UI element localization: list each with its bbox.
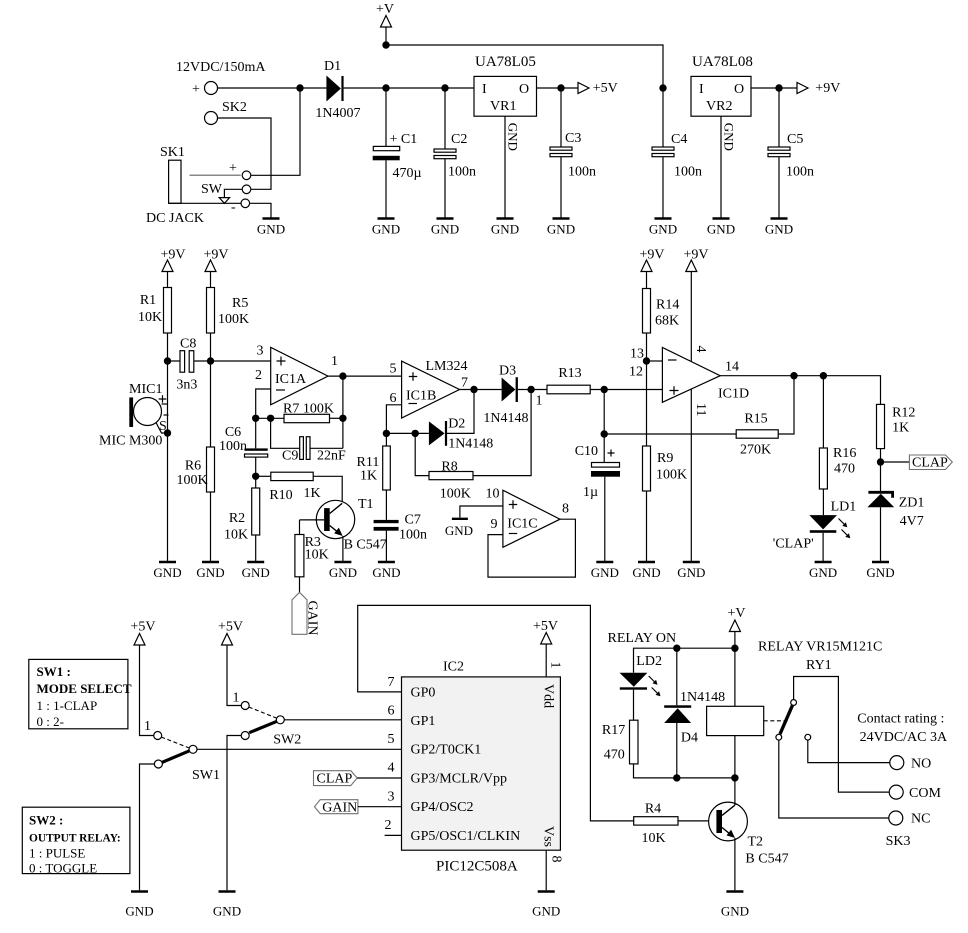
svg-text:RELAY VR15M121C: RELAY VR15M121C xyxy=(758,640,882,655)
svg-text:GND: GND xyxy=(445,523,473,538)
wire output to D2 cathode xyxy=(447,390,474,434)
wire pin6 node to D2 anode xyxy=(386,432,429,434)
VR2 ground pin xyxy=(721,116,737,218)
svg-text:100K: 100K xyxy=(656,468,687,483)
DC jack minus pin and sleeve wire xyxy=(169,199,271,219)
svg-text:VR1: VR1 xyxy=(490,99,516,114)
connector SK2 plus pin xyxy=(192,82,300,98)
svg-text:SW: SW xyxy=(201,182,223,197)
svg-text:R15: R15 xyxy=(744,412,767,427)
svg-text:7: 7 xyxy=(461,376,468,391)
svg-text:C2: C2 xyxy=(451,132,467,147)
svg-text:100n: 100n xyxy=(399,528,427,543)
svg-text:1N4148: 1N4148 xyxy=(680,690,725,705)
resistor R9 100K xyxy=(643,446,688,562)
connector SK2 minus pin xyxy=(205,112,272,190)
svg-text:LM324: LM324 xyxy=(426,359,468,374)
node +5V at SW2 xyxy=(218,620,243,706)
svg-text:COM: COM xyxy=(909,786,941,801)
svg-text:GP0: GP0 xyxy=(411,685,436,700)
capacitor C9 22nF xyxy=(271,418,346,463)
ground at C5 xyxy=(765,219,793,237)
svg-text:8: 8 xyxy=(562,502,569,517)
svg-text:3: 3 xyxy=(388,789,395,804)
resistor R7 100K xyxy=(283,402,343,423)
LED LD2 xyxy=(620,654,662,720)
svg-text:100n: 100n xyxy=(448,165,476,180)
resistor R12 1K xyxy=(877,404,916,491)
switch SW2 contact 1 xyxy=(233,691,250,710)
svg-text:IC1D: IC1D xyxy=(718,387,749,402)
capacitor C8 3n3 xyxy=(168,337,211,393)
resistor R6 100K xyxy=(176,447,214,492)
svg-text:1K: 1K xyxy=(892,421,909,436)
IC2 PIC12C508A body xyxy=(402,660,561,875)
svg-text:SK3: SK3 xyxy=(886,834,911,849)
IC2 pin 3 GP4 with GAIN tag xyxy=(315,789,402,815)
ground at VR1 xyxy=(491,219,519,237)
svg-text:GND: GND xyxy=(722,123,737,151)
svg-text:100n: 100n xyxy=(674,165,702,180)
relay lever xyxy=(780,706,792,735)
svg-text:100K: 100K xyxy=(176,473,207,488)
junction feedback right xyxy=(339,415,346,422)
resistor R15 270K feedback xyxy=(604,376,794,458)
svg-text:R2: R2 xyxy=(229,511,245,526)
terminal COM xyxy=(889,785,941,801)
IC1A output pin1 xyxy=(328,354,402,376)
svg-text:470: 470 xyxy=(604,748,625,763)
svg-text:1 : 1-CLAP: 1 : 1-CLAP xyxy=(37,698,98,713)
switch SW2 common pole xyxy=(273,716,401,748)
tag GAIN vertical xyxy=(292,592,320,635)
resistor R1 10K xyxy=(138,288,172,334)
svg-text:+9V: +9V xyxy=(815,81,840,96)
svg-text:1N4148: 1N4148 xyxy=(448,437,493,452)
ground at C2 xyxy=(431,219,459,237)
svg-text:D1: D1 xyxy=(324,59,341,74)
svg-text:R17: R17 xyxy=(602,723,625,738)
ground at SW2 xyxy=(213,892,241,919)
op-amp IC1A xyxy=(255,344,328,405)
resistor R5 100K xyxy=(207,288,250,334)
svg-text:10: 10 xyxy=(486,487,500,502)
junction IC1A output xyxy=(339,372,346,379)
resistor R4 10K xyxy=(634,802,717,847)
wire R5 to R6 xyxy=(210,333,212,447)
svg-text:100n: 100n xyxy=(786,165,814,180)
ground at SW1 xyxy=(125,892,153,919)
relay NC throw contact xyxy=(776,734,889,818)
switch SW1 contact 0 xyxy=(140,760,163,890)
wire VR1 output xyxy=(537,87,579,89)
svg-text:+9V: +9V xyxy=(639,248,664,263)
ground at C7 xyxy=(372,562,400,580)
ground at DC jack xyxy=(257,219,285,237)
svg-text:NC: NC xyxy=(911,812,930,827)
svg-text:1N4007: 1N4007 xyxy=(315,106,360,121)
svg-text:SW2: SW2 xyxy=(273,733,301,748)
junction C1 node xyxy=(382,84,389,91)
svg-text:100K: 100K xyxy=(218,312,249,327)
svg-text:D3: D3 xyxy=(499,364,516,379)
IC1C feedback loop pin9 to pin8 xyxy=(488,519,575,577)
junction R16 top xyxy=(820,372,827,379)
IC2 pin 4 GP3 with CLAP tag xyxy=(314,761,402,787)
svg-text:VR2: VR2 xyxy=(706,99,732,114)
junction C9 branch xyxy=(267,415,274,422)
junction pin6 node xyxy=(383,430,390,437)
VR1 ground pin xyxy=(505,116,521,218)
junction R8 branch xyxy=(412,430,419,437)
capacitor C6 100n xyxy=(219,418,268,488)
svg-text:R10: R10 xyxy=(269,488,292,503)
svg-text:SK2: SK2 xyxy=(222,100,247,115)
svg-text:GAIN: GAIN xyxy=(322,801,357,816)
svg-text:R1: R1 xyxy=(140,293,156,308)
resistor R10 1K xyxy=(256,472,343,503)
svg-text:C9: C9 xyxy=(282,449,298,464)
IC2 pin 1 Vdd +5V xyxy=(533,619,563,677)
zener ZD1 4V7 xyxy=(867,492,924,562)
svg-text:NO: NO xyxy=(911,757,931,772)
svg-text:R4: R4 xyxy=(645,802,661,817)
wire junction to DC jack plus contact xyxy=(251,88,300,175)
resistor R2 10K xyxy=(224,488,260,562)
junction bottom rail at coil xyxy=(731,774,738,781)
tag CLAP output xyxy=(881,455,953,471)
label contact rating xyxy=(857,712,948,746)
svg-text:GAIN: GAIN xyxy=(305,601,320,636)
svg-text:C5: C5 xyxy=(787,132,803,147)
svg-text:'CLAP': 'CLAP' xyxy=(773,537,814,552)
relay NO throw contact xyxy=(805,734,890,762)
svg-text:GP1: GP1 xyxy=(411,714,436,729)
regulator VR1 UA78L05 xyxy=(474,54,537,116)
transistor T1 BC547 xyxy=(300,497,387,562)
svg-text:2: 2 xyxy=(255,368,262,383)
svg-text:GP3/MCLR/Vpp: GP3/MCLR/Vpp xyxy=(411,771,507,786)
svg-text:+9V: +9V xyxy=(203,248,228,263)
terminal NO xyxy=(890,756,931,772)
svg-text:9: 9 xyxy=(491,517,498,532)
svg-text:SW2 :: SW2 : xyxy=(29,813,63,828)
svg-text:IC1C: IC1C xyxy=(507,517,537,532)
svg-text:11: 11 xyxy=(693,403,708,416)
svg-text:R14: R14 xyxy=(656,298,679,313)
svg-text:+V: +V xyxy=(376,2,394,17)
svg-text:C7: C7 xyxy=(405,513,421,528)
svg-text:GP2/T0CK1: GP2/T0CK1 xyxy=(411,743,482,758)
junction IC1B output xyxy=(470,386,477,393)
svg-text:SW1 :: SW1 : xyxy=(37,664,71,679)
junction C2 node xyxy=(441,84,448,91)
SW2 dashed throw xyxy=(249,707,277,718)
resistor R16 470 xyxy=(819,376,856,515)
svg-text:100n: 100n xyxy=(568,165,596,180)
junction R13-C10 node xyxy=(601,386,608,393)
switch SW2 contact 0 xyxy=(227,732,249,891)
svg-text:7: 7 xyxy=(388,675,395,690)
ground at C3 xyxy=(547,219,575,237)
junction C4 node xyxy=(659,84,666,91)
node +V at relay xyxy=(727,606,745,706)
microphone MIC1 MIC M300 xyxy=(99,382,169,449)
diode D3 1N4148 xyxy=(483,364,547,427)
junction R5-C8 xyxy=(207,357,214,364)
capacitor C1 470u electrolytic xyxy=(373,88,422,219)
svg-text:24VDC/AC 3A: 24VDC/AC 3A xyxy=(860,730,948,745)
svg-text:10K: 10K xyxy=(138,310,162,325)
svg-text:+: + xyxy=(192,82,200,97)
junction pin2 node xyxy=(252,415,259,422)
svg-text:OUTPUT RELAY:: OUTPUT RELAY: xyxy=(29,833,121,845)
transistor T2 BC547 xyxy=(709,778,789,890)
svg-text:1µ: 1µ xyxy=(583,485,598,500)
svg-text:DC JACK: DC JACK xyxy=(146,211,204,226)
svg-text:4: 4 xyxy=(388,761,395,776)
switch SW1 common pole xyxy=(189,745,402,783)
svg-text:6: 6 xyxy=(390,391,397,406)
svg-text:SK1: SK1 xyxy=(160,145,185,160)
node +5V at SW1 xyxy=(130,620,155,736)
svg-text:22nF: 22nF xyxy=(317,449,346,464)
node +9V rail arrow xyxy=(797,81,840,96)
wire pin13 xyxy=(630,347,662,362)
junction pin13 node xyxy=(643,357,650,364)
svg-text:RELAY ON: RELAY ON xyxy=(608,631,677,646)
svg-text:IC1B: IC1B xyxy=(406,389,436,404)
resistor R8 100K xyxy=(415,390,531,502)
svg-text:Vss: Vss xyxy=(541,826,556,847)
ground at VR2 xyxy=(707,219,735,237)
svg-text:470µ: 470µ xyxy=(393,166,422,181)
relay common bracket to COM xyxy=(794,677,890,793)
svg-text:D4: D4 xyxy=(681,731,698,746)
svg-text:3n3: 3n3 xyxy=(176,378,197,393)
svg-text:68K: 68K xyxy=(655,314,679,329)
wire VR2 output xyxy=(751,87,797,89)
IC1D pin11 wire to ground xyxy=(690,390,692,563)
junction top rail at coil xyxy=(731,645,738,652)
junction C6-R10-R2 xyxy=(252,473,259,480)
svg-text:100n: 100n xyxy=(219,439,247,454)
svg-text:LD1: LD1 xyxy=(831,500,857,515)
IC1B output wire xyxy=(460,389,502,391)
ground at C4 xyxy=(649,219,677,237)
svg-text:10K: 10K xyxy=(224,528,248,543)
svg-text:MIC M300: MIC M300 xyxy=(99,434,162,449)
svg-text:C6: C6 xyxy=(225,425,241,440)
SW2 lever xyxy=(249,721,277,732)
wire C8 node to IC1A pin3 xyxy=(211,360,271,362)
svg-text:-: - xyxy=(231,200,236,215)
node +5V rail arrow xyxy=(578,81,618,96)
junction C10-R15 xyxy=(601,430,608,437)
diode D4 1N4148 flyback xyxy=(664,648,725,778)
ground at R6 xyxy=(196,562,224,580)
dashed link coil to lever xyxy=(764,720,788,722)
svg-text:GP4/OSC2: GP4/OSC2 xyxy=(411,800,474,815)
junction CLAP node xyxy=(877,458,884,465)
junction mic shield node xyxy=(164,429,171,436)
svg-text:C10: C10 xyxy=(575,444,598,459)
DC jack switch contact SW xyxy=(201,182,251,203)
ground at R9 xyxy=(632,562,660,580)
svg-text:1: 1 xyxy=(144,719,151,734)
node +9V at IC1D pin4 xyxy=(683,248,708,362)
svg-text:GND: GND xyxy=(506,123,521,151)
ground at IC2 xyxy=(532,892,560,919)
svg-text:2: 2 xyxy=(385,818,392,833)
svg-text:B C547: B C547 xyxy=(344,538,387,553)
svg-text:T1: T1 xyxy=(358,497,374,512)
capacitor C2 100n xyxy=(434,88,476,219)
svg-text:10K: 10K xyxy=(305,548,329,563)
note box SW2 OUTPUT RELAY xyxy=(22,807,130,875)
svg-text:+ C1: + C1 xyxy=(390,132,418,147)
svg-text:RY1: RY1 xyxy=(806,658,832,673)
node +V xyxy=(376,2,394,45)
IC2 pin 2 stub xyxy=(385,818,402,835)
junction top rail at D4 xyxy=(673,645,680,652)
svg-text:13: 13 xyxy=(630,347,644,362)
svg-text:+5V: +5V xyxy=(593,81,618,96)
svg-text:MIC1: MIC1 xyxy=(129,382,162,397)
IC1C pin10 wire to ground xyxy=(445,506,503,538)
svg-text:R13: R13 xyxy=(558,366,581,381)
svg-text:C3: C3 xyxy=(565,131,581,146)
ground at C1 xyxy=(372,219,400,237)
resistor R11 1K xyxy=(357,446,391,520)
svg-text:R5: R5 xyxy=(232,296,248,311)
svg-text:I: I xyxy=(482,82,487,97)
SW1 dashed throw xyxy=(161,737,189,748)
wire R6 to ground xyxy=(210,492,212,562)
junction on +V rail xyxy=(382,41,389,48)
svg-text:R16: R16 xyxy=(833,446,856,461)
svg-text:4: 4 xyxy=(693,346,708,353)
svg-text:C8: C8 xyxy=(180,337,196,352)
svg-text:0 : 2-: 0 : 2- xyxy=(37,714,64,729)
junction D1 anode node xyxy=(296,84,303,91)
svg-text:GP5/OSC1/CLKIN: GP5/OSC1/CLKIN xyxy=(411,829,521,844)
svg-text:1: 1 xyxy=(331,354,338,369)
capacitor C7 100n xyxy=(374,513,427,563)
ground at LD1 xyxy=(809,562,837,580)
junction node 1 xyxy=(527,386,542,409)
wire D1 to VR1 input xyxy=(344,87,474,89)
svg-text:3: 3 xyxy=(257,344,264,359)
node +9V at R5 xyxy=(203,248,228,288)
wire relay top rail xyxy=(634,648,735,673)
diode D2 1N4148 xyxy=(429,417,493,452)
svg-text:IC2: IC2 xyxy=(443,660,464,675)
svg-text:270K: 270K xyxy=(740,443,771,458)
ground at C10 xyxy=(591,562,619,580)
diode D1 1N4007 xyxy=(315,59,360,121)
svg-text:1K: 1K xyxy=(303,486,320,501)
svg-text:+: + xyxy=(229,161,237,176)
relay coil RY1 xyxy=(707,706,764,778)
resistor R13 xyxy=(547,366,662,394)
IC1D output wire xyxy=(720,376,880,405)
svg-text:470: 470 xyxy=(834,462,855,477)
svg-text:+5V: +5V xyxy=(130,620,155,635)
ground at IC1D xyxy=(677,562,705,580)
op-amp IC1B LM324 xyxy=(390,359,469,418)
svg-text:1 : PULSE: 1 : PULSE xyxy=(29,846,85,861)
svg-text:1K: 1K xyxy=(360,469,377,484)
svg-text:T2: T2 xyxy=(748,835,764,850)
note box SW1 MODE SELECT xyxy=(29,659,132,729)
ground at ZD1 xyxy=(866,562,894,580)
svg-text:UA78L08: UA78L08 xyxy=(692,54,753,70)
svg-text:I: I xyxy=(699,82,704,97)
svg-text:R6: R6 xyxy=(185,459,201,474)
terminal NC xyxy=(889,811,931,827)
svg-text:Vdd: Vdd xyxy=(541,684,556,708)
ground at T1 xyxy=(329,562,357,580)
regulator VR2 UA78L08 xyxy=(691,54,753,116)
svg-text:O: O xyxy=(519,82,529,97)
resistor R17 470 xyxy=(602,720,735,778)
node +9V at R14 xyxy=(639,248,664,289)
junction C5 node xyxy=(775,84,782,91)
ground at mic xyxy=(153,562,181,580)
svg-text:R12: R12 xyxy=(892,406,915,421)
ground at T2 xyxy=(721,892,749,919)
svg-text:1N4148: 1N4148 xyxy=(483,411,528,426)
svg-text:+5V: +5V xyxy=(533,619,558,634)
IC2 pin 8 Vss ground xyxy=(546,850,563,890)
svg-text:R9: R9 xyxy=(657,451,673,466)
svg-text:4V7: 4V7 xyxy=(900,514,924,529)
svg-text:IC1A: IC1A xyxy=(275,372,307,387)
svg-text:0 : TOGGLE: 0 : TOGGLE xyxy=(29,861,97,876)
svg-text:10K: 10K xyxy=(641,831,665,846)
svg-text:8: 8 xyxy=(549,856,564,863)
capacitor C10 1u electrolytic xyxy=(575,390,620,563)
wire +V rail to VR2 input xyxy=(386,45,663,88)
SW1 lever xyxy=(162,751,190,763)
IC1A pin2 wire xyxy=(256,389,271,418)
LED LD1 xyxy=(773,500,856,563)
svg-text:1: 1 xyxy=(548,662,563,669)
svg-text:+9V: +9V xyxy=(160,248,185,263)
connector SK1 DC jack body xyxy=(146,145,204,226)
svg-text:14: 14 xyxy=(725,360,739,375)
op-amp IC1D xyxy=(629,346,749,417)
svg-text:CLAP: CLAP xyxy=(912,456,948,471)
switch SW1 contact 1 xyxy=(144,719,162,740)
svg-text:1: 1 xyxy=(536,394,543,409)
svg-text:CLAP: CLAP xyxy=(317,772,353,787)
svg-text:+5V: +5V xyxy=(218,620,243,635)
IC2 pin labels xyxy=(411,684,556,847)
svg-text:D2: D2 xyxy=(448,417,465,432)
svg-text:+V: +V xyxy=(727,606,745,621)
svg-text:5: 5 xyxy=(388,732,395,747)
capacitor C3 100n xyxy=(550,88,596,219)
op-amp IC1C xyxy=(486,487,570,548)
wire junction to D1 xyxy=(300,87,326,89)
wire feedback row xyxy=(256,417,284,419)
capacitor C4 100n xyxy=(652,88,702,219)
junction R15 feedback top xyxy=(790,372,797,379)
relay pivot contact xyxy=(791,700,797,706)
svg-text:PIC12C508A: PIC12C508A xyxy=(436,859,518,875)
